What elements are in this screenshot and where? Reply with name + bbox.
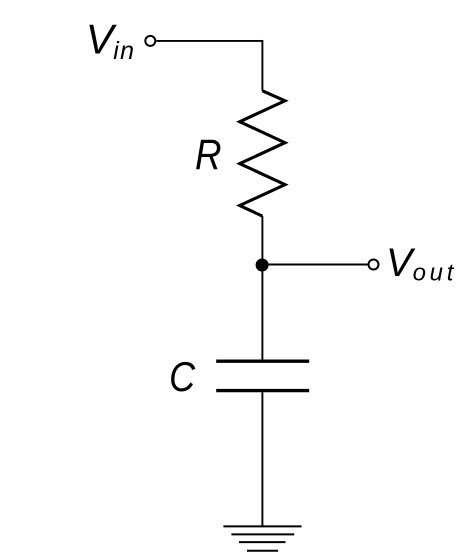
svg-text:V: V [386,241,416,285]
capacitor C [216,361,309,390]
wire node to Vout [262,264,368,266]
wire top horizontal [156,40,262,42]
wire resistor to node [261,216,263,265]
svg-text:in: in [113,37,135,65]
ground [223,526,301,550]
label Vout [386,241,457,286]
wire node to capacitor [261,265,263,360]
svg-text:C: C [169,353,196,400]
wire capacitor to ground [261,392,263,526]
wire top vertical [261,40,263,91]
svg-text:out: out [413,260,457,287]
junction node [256,259,269,272]
node Vout terminal [369,260,379,270]
label Vin [86,16,136,65]
svg-text:R: R [195,131,222,179]
resistor R [240,91,285,216]
node Vin terminal [145,36,155,46]
